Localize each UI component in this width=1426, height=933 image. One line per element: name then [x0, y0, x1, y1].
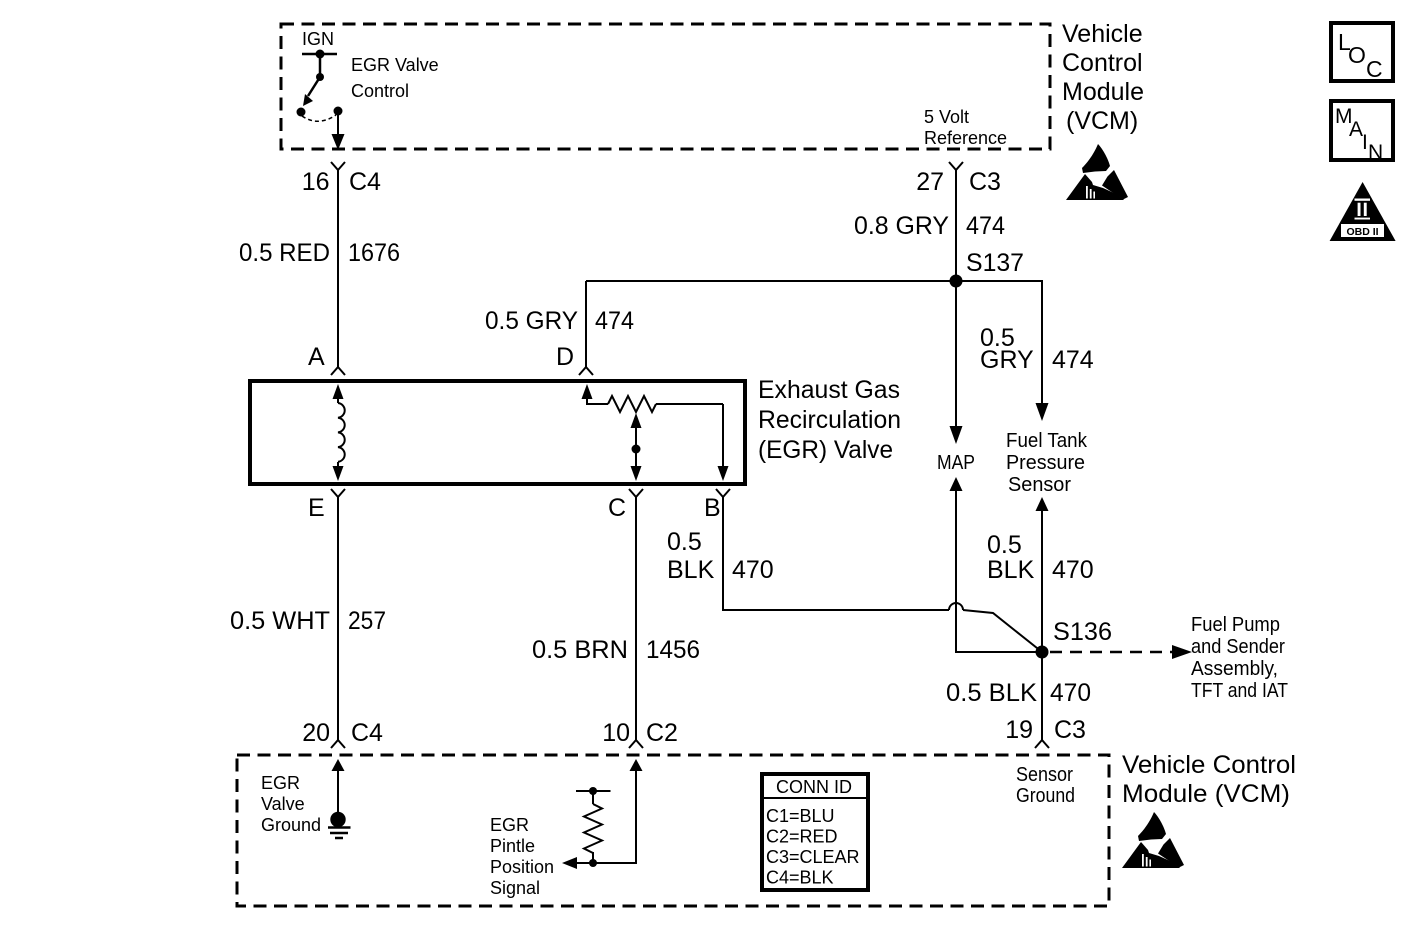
svg-text:Reference: Reference — [924, 128, 1007, 148]
svg-text:C2=RED: C2=RED — [766, 827, 838, 847]
svg-text:Ground: Ground — [261, 815, 321, 835]
wire 0.5 GRY 474 down to D — [585, 281, 587, 367]
connector pin B caret — [716, 489, 730, 497]
svg-text:Fuel Pump: Fuel Pump — [1191, 613, 1280, 636]
svg-text:MAP: MAP — [937, 451, 975, 474]
connector pin D caret — [579, 367, 593, 375]
svg-text:A: A — [308, 343, 325, 371]
EGR pintle position potentiometer R-pot — [582, 384, 729, 481]
connector pin A caret — [331, 367, 345, 375]
connector pin C caret — [629, 489, 643, 497]
svg-text:OBD II: OBD II — [1346, 226, 1378, 238]
svg-text:Exhaust Gas: Exhaust Gas — [758, 376, 900, 404]
svg-text:A: A — [1349, 118, 1363, 141]
svg-text:B: B — [704, 494, 721, 522]
svg-text:470: 470 — [1050, 679, 1091, 707]
svg-text:Assembly,: Assembly, — [1191, 657, 1278, 680]
wire 0.5 WHT 257 — [337, 497, 339, 740]
svg-text:N: N — [1368, 141, 1383, 164]
svg-text:D: D — [556, 343, 574, 371]
icon MAIN box — [1331, 101, 1393, 164]
switch SW1 movable arm with arrowhead — [308, 77, 320, 96]
svg-text:Vehicle Control: Vehicle Control — [1122, 751, 1296, 779]
pintle signal pick-off resistor R1 — [576, 787, 611, 867]
wire 0.5 BRN 1456 — [635, 497, 637, 740]
CONN ID table — [762, 774, 868, 890]
svg-text:C4: C4 — [351, 719, 383, 747]
svg-text:BLK: BLK — [987, 556, 1035, 584]
svg-text:27: 27 — [916, 168, 944, 196]
svg-text:Pintle: Pintle — [490, 836, 535, 856]
svg-text:S136: S136 — [1053, 618, 1112, 646]
svg-text:CONN ID: CONN ID — [776, 777, 852, 797]
wire EGR valve ground inside VCM — [332, 759, 345, 771]
svg-text:Module (VCM): Module (VCM) — [1122, 780, 1290, 808]
svg-text:474: 474 — [595, 307, 634, 335]
svg-text:474: 474 — [1052, 346, 1094, 374]
splice S137 junction dot — [950, 275, 963, 288]
svg-text:TFT and IAT: TFT and IAT — [1191, 679, 1288, 702]
svg-text:Sensor: Sensor — [1016, 763, 1073, 786]
svg-text:E: E — [308, 494, 325, 522]
svg-text:C3=CLEAR: C3=CLEAR — [766, 847, 860, 867]
connector 16 C4 — [331, 162, 345, 170]
connector pin E caret — [331, 489, 345, 497]
wire S137 to D horizontal — [586, 280, 956, 282]
wire EGR pintle position signal inside VCM — [630, 759, 643, 771]
EGR solenoid coil L1 — [333, 384, 345, 481]
dashed wire S136 to fuel pump — [1050, 651, 1172, 654]
svg-text:Control: Control — [1062, 49, 1143, 77]
svg-text:GRY: GRY — [980, 346, 1034, 374]
svg-text:0.5 RED: 0.5 RED — [239, 239, 330, 267]
svg-text:Control: Control — [351, 81, 409, 101]
svg-text:IGN: IGN — [302, 29, 334, 49]
svg-text:C1=BLU: C1=BLU — [766, 806, 835, 826]
svg-text:16: 16 — [302, 168, 330, 196]
svg-text:19: 19 — [1005, 716, 1033, 744]
icon LOC box — [1331, 23, 1393, 82]
signal arrow to left — [575, 862, 593, 864]
VCM bottom dashed box — [237, 755, 1109, 906]
svg-text:C3: C3 — [1054, 716, 1086, 744]
svg-text:Fuel Tank: Fuel Tank — [1006, 429, 1088, 452]
wire 0.5 BLK 470 S136 to 19 C3 — [1041, 652, 1043, 740]
svg-text:470: 470 — [732, 556, 774, 584]
svg-text:1456: 1456 — [646, 636, 700, 664]
splice S136 junction dot — [1036, 646, 1049, 659]
svg-text:470: 470 — [1052, 556, 1094, 584]
switch SW1 right contact — [334, 107, 343, 116]
svg-text:Sensor: Sensor — [1008, 473, 1071, 496]
svg-text:Vehicle: Vehicle — [1062, 20, 1143, 48]
svg-text:0.5 BRN: 0.5 BRN — [532, 636, 628, 664]
svg-text:10: 10 — [602, 719, 630, 747]
potentiometer wiper to pin C — [631, 413, 642, 428]
ground G1 symbol — [328, 812, 351, 838]
svg-text:C4: C4 — [349, 168, 381, 196]
switch SW1 ignition feed bar — [302, 53, 337, 56]
svg-text:257: 257 — [348, 607, 386, 635]
switch SW1 dashed throw arc — [302, 115, 336, 121]
svg-text:(EGR) Valve: (EGR) Valve — [758, 436, 893, 464]
EGR valve body box — [250, 381, 745, 484]
svg-text:EGR Valve: EGR Valve — [351, 55, 439, 75]
svg-text:Signal: Signal — [490, 878, 540, 898]
wire MAP to S136 — [950, 477, 963, 491]
svg-text:0.5 WHT: 0.5 WHT — [230, 607, 330, 635]
svg-text:(VCM): (VCM) — [1066, 107, 1138, 135]
ESD sensitive symbol bottom — [1122, 812, 1184, 868]
wire hop over MAP wire — [949, 603, 963, 610]
wire S137 right and down to fuel tank pressure sensor — [956, 281, 1042, 404]
wire 0.8 GRY 474 — [955, 170, 957, 281]
svg-text:0.5 BLK: 0.5 BLK — [946, 679, 1037, 707]
svg-text:0.8 GRY: 0.8 GRY — [854, 212, 949, 240]
svg-text:Position: Position — [490, 857, 554, 877]
svg-text:Recirculation: Recirculation — [758, 406, 901, 434]
wire 0.5 BLK 470 fuel tank sensor to S136 — [1036, 497, 1049, 511]
svg-text:EGR: EGR — [261, 773, 300, 793]
switch SW1 left contact — [297, 108, 306, 117]
svg-text:Pressure: Pressure — [1006, 451, 1085, 474]
switch SW1 pole stem — [319, 54, 322, 77]
svg-text:and Sender: and Sender — [1191, 635, 1285, 658]
svg-text:C3: C3 — [969, 168, 1001, 196]
svg-text:S137: S137 — [966, 249, 1024, 277]
svg-text:5 Volt: 5 Volt — [924, 107, 969, 127]
wire S137 down to MAP — [955, 281, 957, 427]
svg-text:0.5: 0.5 — [667, 528, 702, 556]
svg-text:O: O — [1348, 42, 1366, 68]
svg-text:C: C — [1366, 56, 1383, 82]
svg-text:Ground: Ground — [1016, 784, 1075, 807]
svg-text:C: C — [608, 494, 626, 522]
svg-text:C4=BLK: C4=BLK — [766, 868, 834, 888]
svg-text:0.5 GRY: 0.5 GRY — [485, 307, 578, 335]
svg-text:0.5: 0.5 — [987, 531, 1022, 559]
svg-text:Valve: Valve — [261, 794, 305, 814]
wire diagonal into S136 — [963, 610, 1042, 652]
svg-text:1676: 1676 — [348, 239, 400, 267]
connector 27 C3 — [949, 162, 963, 170]
icon OBD II triangle — [1330, 182, 1396, 241]
svg-text:I: I — [1362, 131, 1368, 154]
svg-text:BLK: BLK — [667, 556, 715, 584]
svg-text:EGR: EGR — [490, 815, 529, 835]
svg-text:Module: Module — [1062, 78, 1144, 106]
svg-text:C2: C2 — [646, 719, 678, 747]
VCM top dashed box — [281, 24, 1050, 149]
ESD sensitive symbol top — [1066, 144, 1128, 200]
wire 0.5 BLK 470 from pin B — [723, 497, 949, 610]
svg-text:474: 474 — [966, 212, 1005, 240]
wire EGR valve control output inside VCM — [337, 111, 339, 136]
arrowhead down at VCM box edge — [332, 134, 345, 150]
svg-text:20: 20 — [302, 719, 330, 747]
wire 0.5 RED 1676 — [337, 170, 339, 367]
